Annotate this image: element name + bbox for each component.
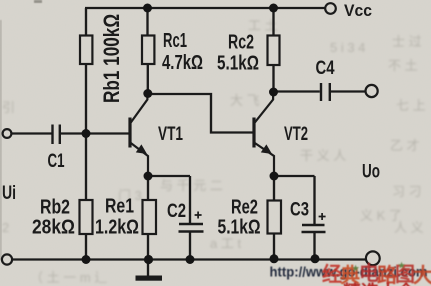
svg-text:5 i 3 4: 5 i 3 4 — [330, 40, 365, 55]
terminal output bottom — [366, 251, 380, 265]
svg-text:5.1kΩ: 5.1kΩ — [218, 217, 261, 239]
watermark red stamp row 2 (clipped) — [343, 281, 416, 286]
svg-text:大 飞: 大 飞 — [230, 93, 260, 108]
terminal Vcc — [325, 3, 336, 14]
junction node Rc1 top rail — [143, 4, 152, 13]
wire C4 right to output — [331, 90, 366, 92]
junction node Rb2 bottom — [82, 255, 91, 264]
watermark red stamp row 1 — [322, 261, 431, 286]
svg-text:七 上: 七 上 — [396, 98, 426, 113]
resistor Rc1 — [142, 36, 154, 65]
capacitor C3 — [302, 213, 326, 232]
svg-text:大: 大 — [413, 264, 431, 286]
svg-text:Vcc: Vcc — [344, 1, 372, 20]
svg-text:乙 才: 乙 才 — [390, 138, 420, 153]
wire C2 bottom — [189, 232, 191, 261]
svg-text:士 过: 士 过 — [392, 34, 422, 49]
terminal input bottom — [2, 254, 12, 264]
svg-text:不 土: 不 土 — [388, 58, 418, 73]
svg-text:Rb2: Rb2 — [40, 197, 70, 219]
junction node C2 bottom — [186, 255, 195, 264]
wire Re2 column — [273, 176, 275, 259]
svg-text:5.1kΩ: 5.1kΩ — [217, 53, 259, 75]
svg-text:C4: C4 — [316, 58, 335, 79]
junction node Rb1/C1/VT1 base — [82, 129, 91, 138]
svg-text:28kΩ: 28kΩ — [32, 217, 75, 239]
junction node Re2 bottom — [270, 254, 279, 263]
wire Re1 column — [147, 176, 149, 260]
capacitor C4 — [321, 83, 330, 101]
capacitor C1 — [53, 125, 60, 145]
svg-text:干 义 人: 干 义 人 — [300, 148, 346, 163]
svg-text:精选大全: 精选大全 — [343, 281, 416, 286]
svg-text:Rb1 100kΩ: Rb1 100kΩ — [100, 14, 125, 103]
svg-text:C2: C2 — [167, 201, 186, 222]
junction node VT2 collector / C4 — [269, 88, 278, 97]
svg-text:1.2kΩ: 1.2kΩ — [95, 217, 139, 239]
resistor Re2 — [268, 201, 282, 234]
svg-text:Ui: Ui — [2, 183, 16, 204]
junction node Rc2 top rail — [269, 4, 278, 13]
svg-text:义 K 了: 义 K 了 — [360, 208, 402, 223]
transistor VT2 — [254, 92, 274, 176]
resistor Rb1 — [80, 36, 92, 65]
wire coupling VT1 collector to VT2 base — [148, 94, 254, 133]
svg-text:引: 引 — [2, 100, 15, 115]
svg-text:与 千 元 二: 与 千 元 二 — [160, 178, 223, 193]
resistor Rc2 — [268, 36, 280, 66]
svg-text:C1: C1 — [48, 151, 65, 172]
junction node VT1 emitter — [144, 172, 153, 181]
svg-text:★: ★ — [352, 264, 360, 273]
wire bottom rail — [11, 258, 366, 260]
resistor Re1 — [143, 200, 157, 234]
transistor VT1 — [130, 94, 148, 176]
svg-text:VT1: VT1 — [158, 124, 183, 145]
resistor Rb2 — [80, 200, 93, 234]
svg-text:Rc1: Rc1 — [163, 30, 187, 52]
junction node Re1 bottom / ground — [144, 255, 153, 264]
wire C1 to VT1 base — [61, 132, 130, 134]
junction node VT2 emitter — [270, 172, 279, 181]
wire Rc1 column — [146, 8, 149, 94]
wire C3 bottom — [313, 232, 315, 259]
label Rb1 100kΩ — [100, 14, 125, 103]
svg-text:2: 2 — [2, 220, 9, 235]
svg-text:Re1: Re1 — [105, 196, 134, 218]
terminal output top (Uo) — [366, 85, 378, 97]
svg-text:Uo: Uo — [362, 162, 380, 183]
wire ground stub — [147, 260, 149, 276]
junction node VT1 collector — [143, 89, 152, 98]
svg-text:（ 土 一 m 辶: （ 土 一 m 辶 — [30, 270, 107, 285]
svg-text:★: ★ — [398, 261, 406, 270]
svg-text:VT2: VT2 — [284, 124, 308, 145]
ground — [136, 276, 163, 281]
wire Rb1 column — [85, 8, 87, 260]
svg-text:经: 经 — [322, 262, 342, 286]
wire C4 left — [274, 90, 320, 92]
capacitor C2 — [179, 212, 204, 232]
wire VT1 emitter node to C2 — [148, 176, 190, 224]
svg-text:C3: C3 — [290, 200, 309, 221]
svg-text:习 刁: 习 刁 — [392, 184, 422, 199]
terminal input top (Ui) — [3, 129, 12, 138]
wire top rail — [85, 7, 326, 9]
svg-text:Re2: Re2 — [231, 197, 258, 219]
wire VT2 emitter node to C3 — [274, 176, 315, 225]
junction node C3 bottom — [311, 254, 320, 263]
wire input to C1 — [11, 132, 51, 134]
wire Rc2 column — [272, 8, 274, 92]
svg-text:4.7kΩ: 4.7kΩ — [162, 52, 203, 74]
svg-text:Rc2: Rc2 — [228, 32, 254, 54]
